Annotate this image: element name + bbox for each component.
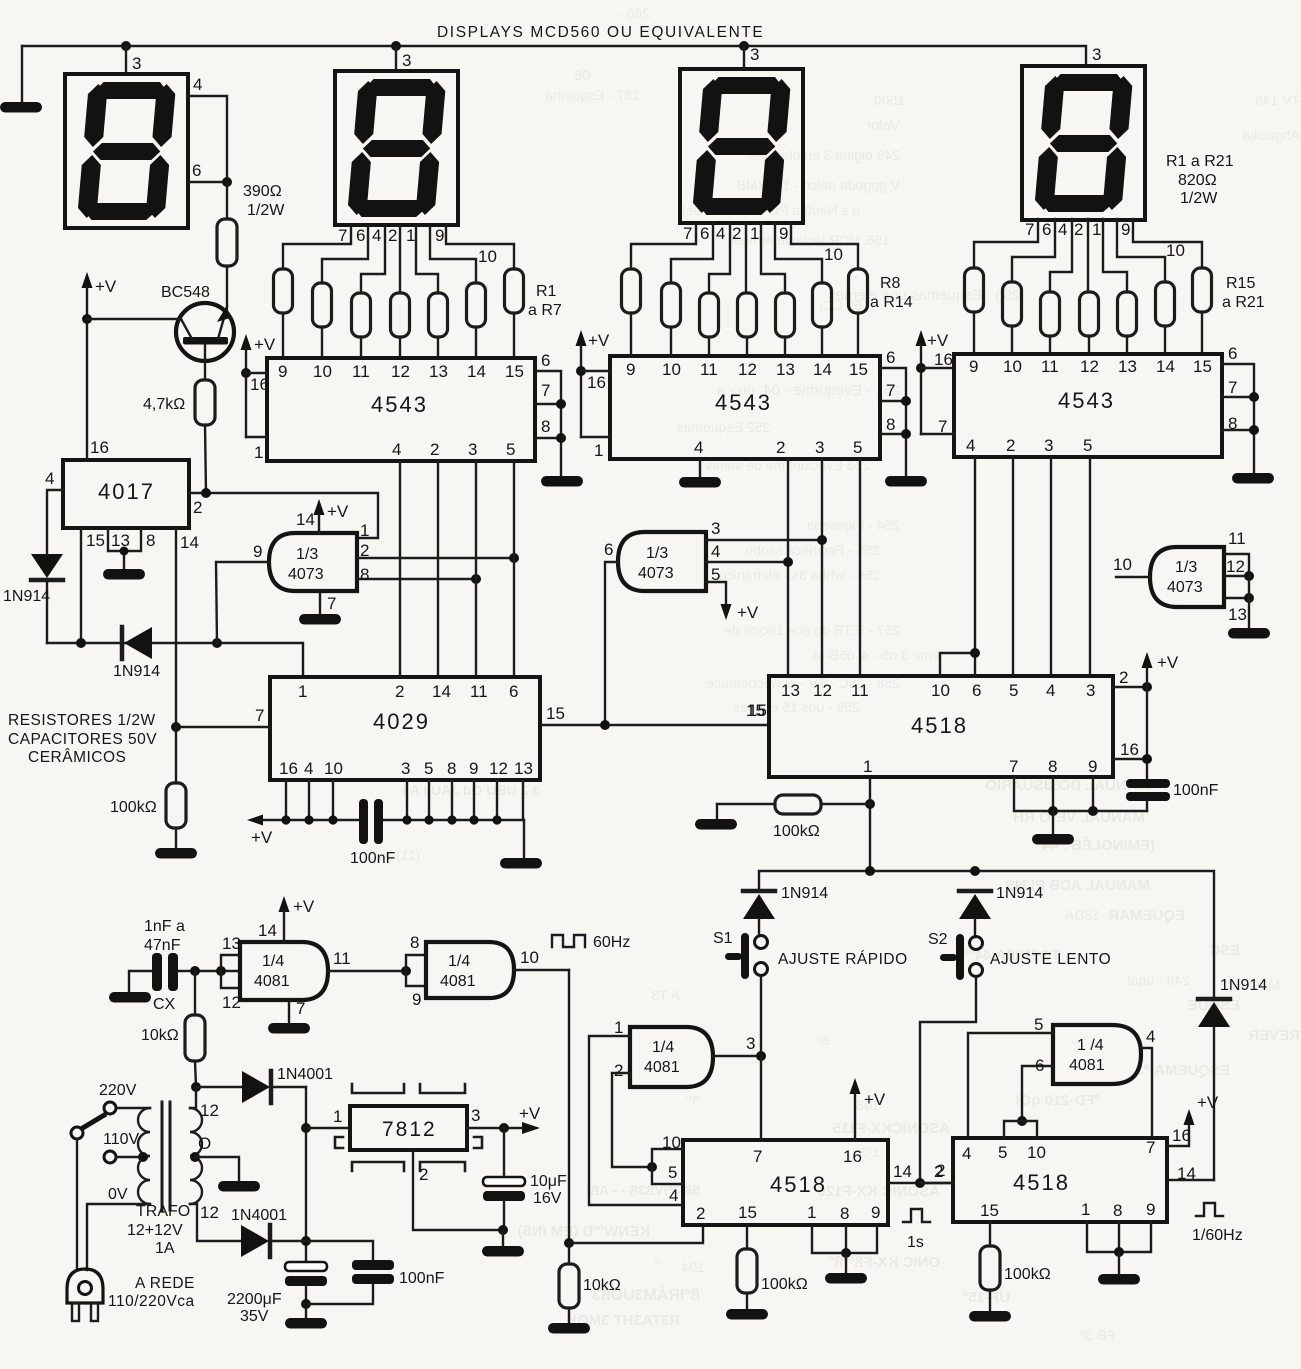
svg-text:CAPACITORES 50V: CAPACITORES 50V — [8, 731, 157, 748]
svg-text:4: 4 — [966, 436, 975, 455]
svg-text:820Ω: 820Ω — [1178, 172, 1217, 189]
wire 4081a input bracket pins13-12 — [221, 934, 241, 1012]
wire 4073a pin7 ground — [320, 591, 336, 613]
wire resistor to 4543 pin — [1201, 312, 1203, 354]
svg-text:4073: 4073 — [288, 566, 324, 583]
svg-text:10kΩ: 10kΩ — [141, 1027, 179, 1044]
wire 4029 pin12 to rail — [496, 780, 498, 820]
wire resistor to 4543 pin — [321, 327, 323, 358]
svg-text:3: 3 — [711, 519, 720, 538]
node dot secondary top — [191, 1082, 201, 1092]
svg-text:13: 13 — [1118, 357, 1137, 376]
wire display pin 10 to resistor — [791, 223, 858, 269]
IC 4518 first — [769, 676, 1113, 777]
svg-text:11: 11 — [1228, 529, 1246, 548]
svg-text:5: 5 — [1083, 436, 1092, 455]
svg-text:7: 7 — [938, 417, 947, 436]
svg-text:a R7: a R7 — [528, 302, 562, 319]
resistor (820 ohm set) col2 — [662, 283, 681, 327]
wire resistor to 4543 pin — [1088, 336, 1090, 354]
svg-text:6: 6 — [541, 351, 550, 370]
svg-text:10: 10 — [1113, 555, 1132, 574]
svg-text:CERÂMICOS: CERÂMICOS — [28, 749, 126, 766]
svg-text:1N4001: 1N4001 — [231, 1207, 287, 1224]
svg-text:10: 10 — [1027, 1143, 1046, 1162]
svg-text:7: 7 — [1009, 757, 1018, 776]
svg-text:6: 6 — [886, 348, 895, 367]
wire display pin 2 to resistor — [1087, 219, 1089, 292]
svg-text:3: 3 — [401, 759, 410, 778]
svg-text:4: 4 — [1058, 220, 1067, 239]
svg-text:220V: 220V — [99, 1082, 137, 1099]
svg-text:10: 10 — [1166, 241, 1185, 260]
wire 4029 pin5 to rail — [428, 780, 430, 820]
resistor (820 ohm set) col4 — [391, 293, 410, 337]
svg-text:1/4: 1/4 — [262, 953, 284, 970]
diode D2 1N914 horizontal — [113, 627, 160, 680]
svg-text:A REDE: A REDE — [135, 1275, 195, 1292]
bus 4543-1 pin3 to 4029 pin11 — [475, 461, 477, 677]
diode D5 1N914 right — [1198, 977, 1267, 1180]
svg-text:13: 13 — [1228, 605, 1247, 624]
IC 4029 — [270, 677, 540, 780]
svg-text:1: 1 — [360, 521, 369, 540]
svg-text:V gpgoda aelco - 150XMB: V gpgoda aelco - 150XMB — [737, 177, 900, 193]
wire 4081d output pin4 — [1141, 1027, 1155, 1138]
wire 4081d pin6 — [1017, 1056, 1053, 1126]
svg-text:13: 13 — [776, 360, 795, 379]
svg-text:4073: 4073 — [1167, 579, 1203, 596]
resistor (820 ohm set) col4 — [738, 293, 757, 337]
svg-text:15: 15 — [86, 531, 105, 550]
wire display pin 4 to resistor — [361, 225, 385, 293]
svg-text:9: 9 — [469, 759, 478, 778]
svg-text:9: 9 — [253, 542, 262, 561]
svg-text:13: 13 — [514, 759, 533, 778]
svg-text:2: 2 — [1074, 220, 1083, 239]
svg-text:15: 15 — [748, 701, 767, 720]
svg-text:4: 4 — [694, 438, 703, 457]
gate U-4081b 1/4 4081 — [426, 942, 514, 998]
wire 4073a output pin9 — [216, 542, 269, 643]
svg-text:2: 2 — [776, 438, 785, 457]
wire display pin 9 to resistor — [1117, 219, 1165, 282]
wire secondary bottom lead — [190, 1203, 241, 1241]
svg-text:1: 1 — [614, 1018, 623, 1037]
resistor (820 ohm set) col1 — [274, 269, 293, 313]
terminal 110V — [103, 1131, 148, 1163]
svg-text:100kΩ: 100kΩ — [110, 799, 157, 816]
wire 4543-2 pin4 to ground — [699, 459, 701, 476]
wire 4073c pin12 — [1224, 557, 1254, 581]
svg-text:+V: +V — [254, 335, 276, 354]
gate U-4081c 1/4 4081 — [630, 1027, 713, 1087]
svg-text:R8: R8 — [880, 275, 901, 292]
wire 4081a pin7 ground — [289, 999, 305, 1022]
wire to 7812 pin1 — [306, 1127, 350, 1129]
svg-text:8: 8 — [410, 933, 419, 952]
wire secondary-top node to diode — [196, 1086, 242, 1088]
wire resistor to 4543 pin — [475, 327, 477, 358]
svg-text:6: 6 — [972, 681, 981, 700]
svg-text:100nF: 100nF — [350, 850, 396, 867]
wire 4518-2 pin15 to 100k — [737, 1225, 808, 1308]
+V arrow 4518-2 pin16 — [850, 1078, 886, 1140]
wire top +segment-common rail — [22, 46, 1086, 66]
svg-text:3: 3 — [746, 1034, 755, 1053]
svg-text:8: 8 — [886, 415, 895, 434]
wire CX to 10k — [194, 971, 196, 1015]
wire 4518-1 ground row — [1014, 777, 1147, 833]
svg-text:1: 1 — [298, 682, 307, 701]
svg-text:12: 12 — [738, 360, 757, 379]
svg-text:6: 6 — [1228, 344, 1237, 363]
resistor (820 ohm set) col3 — [352, 293, 371, 337]
ground 4543-2 pins678 — [885, 476, 927, 487]
svg-text:12: 12 — [391, 362, 410, 381]
svg-text:1nF a: 1nF a — [144, 918, 185, 935]
wire 4073c output pin10 stub — [1113, 555, 1150, 577]
diode D6 1N4001 — [242, 1066, 333, 1103]
node dot gate input bracket — [216, 966, 226, 976]
svg-text:1º3: 1º3 — [859, 1144, 880, 1160]
wire 4029 pin7 to 100k — [175, 727, 177, 783]
svg-text:4: 4 — [1146, 1027, 1155, 1046]
ground 100k ajuste — [695, 819, 737, 830]
svg-text:1: 1 — [406, 226, 415, 245]
+V arrow 4081a pin14 — [258, 896, 315, 942]
svg-text:1/4: 1/4 — [448, 953, 470, 970]
svg-text:7: 7 — [683, 224, 692, 243]
svg-text:9: 9 — [412, 990, 421, 1009]
svg-text:4543: 4543 — [715, 390, 772, 415]
svg-text:8: 8 — [840, 1204, 849, 1223]
capacitor 100nF mid — [350, 799, 396, 867]
svg-text:R1: R1 — [536, 283, 557, 300]
resistor (820 ohm set) col2 — [1003, 282, 1022, 326]
svg-text:S2: S2 — [928, 931, 948, 948]
svg-text:9: 9 — [278, 362, 287, 381]
svg-text:R15: R15 — [1226, 275, 1255, 292]
svg-text:9: 9 — [1121, 220, 1130, 239]
wire 4017 pin15 — [81, 528, 105, 643]
wire resistor to 4543 pin — [630, 313, 632, 356]
node dot rect rail low — [301, 1236, 311, 1246]
svg-text:R1 a R21: R1 a R21 — [1166, 153, 1234, 170]
svg-text:6: 6 — [192, 161, 201, 180]
svg-text:12: 12 — [200, 1101, 219, 1120]
svg-text:18DA: 18DA — [1064, 907, 1100, 923]
symbol 60Hz squarewave — [552, 934, 630, 951]
svg-text:ºrº: ºrº — [686, 1092, 700, 1107]
svg-text:35V: 35V — [240, 1308, 269, 1325]
wire display pin 4 to resistor — [709, 223, 730, 293]
svg-text:1500: 1500 — [874, 92, 905, 108]
label TRAFO — [127, 1203, 190, 1257]
node dot 60Hz/10k/pin2 — [564, 1238, 574, 1248]
wire 4081b output pin10 / 60Hz — [514, 948, 569, 1243]
wire 4518-2 pin14 — [888, 1162, 953, 1188]
svg-text:1A: 1A — [155, 1240, 175, 1257]
svg-text:10: 10 — [520, 948, 539, 967]
svg-text:+V: +V — [293, 897, 315, 916]
svg-text:11: 11 — [1041, 357, 1059, 376]
svg-text:4081: 4081 — [440, 973, 476, 990]
svg-text:15: 15 — [980, 1201, 999, 1220]
node dot D1 pin3 — [121, 41, 131, 51]
svg-text:4: 4 — [193, 75, 202, 94]
wire switch to plug — [76, 1139, 78, 1270]
svg-text:1N914: 1N914 — [113, 663, 160, 680]
bus 4543-1 pin4 to 4029 pin2 — [399, 461, 401, 677]
ground 10k bottom — [548, 1323, 590, 1334]
svg-text:9: 9 — [1146, 1200, 1155, 1219]
svg-text:7: 7 — [753, 1147, 762, 1166]
wire 4073c pin13 — [1224, 576, 1254, 627]
transformer primary winding — [138, 1108, 150, 1204]
svg-text:100nF: 100nF — [1173, 782, 1219, 799]
wires 4518-2 pins 1,8,9 ground — [812, 1225, 877, 1272]
wire left drop to ground — [21, 46, 23, 101]
terminal 220V — [99, 1082, 150, 1114]
wire secondary centre tap — [190, 1134, 239, 1180]
resistor (820 ohm set) col6 — [467, 283, 486, 327]
wire resistor to 4543 pin — [784, 337, 786, 356]
svg-text:7: 7 — [886, 381, 895, 400]
ground 4029 rail — [500, 858, 542, 869]
wires 4017 pins13,8 tied to ground — [108, 528, 155, 568]
svg-text:Valor: Valor — [866, 117, 900, 134]
wire 4518-1 pin10 bracket — [940, 648, 980, 676]
wire 4081b input bracket pins8-9 — [406, 933, 426, 1009]
svg-text:14: 14 — [1156, 357, 1175, 376]
wire display pin 7 to resistor — [974, 219, 1038, 268]
wire secondary top lead — [190, 1087, 219, 1120]
svg-text:2: 2 — [395, 682, 404, 701]
svg-text:15: 15 — [1193, 357, 1212, 376]
svg-text:9: 9 — [1088, 757, 1097, 776]
resistor (820 ohm set) col1 — [622, 269, 641, 313]
resistor (820 ohm set) col6 — [813, 283, 832, 327]
svg-text:14: 14 — [467, 362, 486, 381]
svg-text:254 - Fiqeseba: 254 - Fiqeseba — [806, 517, 900, 533]
wire 4029 pin8 to rail — [451, 780, 453, 820]
svg-text:6: 6 — [509, 682, 518, 701]
svg-text:16: 16 — [587, 373, 606, 392]
resistor 100k left — [110, 783, 186, 847]
switch mains lever — [71, 1114, 106, 1139]
svg-text:10: 10 — [824, 245, 843, 264]
wire display pin 2 to resistor — [399, 225, 401, 293]
bus 4543-3 pin3 to 4518-1 pin4 — [1050, 457, 1052, 676]
ground 4543-1 — [541, 476, 583, 487]
svg-text:14: 14 — [1177, 1164, 1196, 1183]
svg-text:4: 4 — [392, 440, 401, 459]
svg-text:10: 10 — [662, 360, 681, 379]
node dot 7812 in — [301, 1123, 311, 1133]
ground 10uF — [482, 1246, 524, 1257]
wire display1 pin4 — [188, 96, 227, 182]
svg-text:9: 9 — [779, 224, 788, 243]
wire 4029 pin13 to rail — [522, 780, 524, 820]
wire 4029 +V rail bottom — [247, 815, 524, 859]
svg-text:1N914: 1N914 — [996, 885, 1043, 902]
wire 4029 pin16 to rail — [285, 780, 287, 820]
wire display pin 4 to resistor — [1050, 219, 1072, 292]
wire 4081c pin1 — [589, 1018, 683, 1205]
wire 4073b pin3 to bus822 — [706, 519, 827, 545]
diode D4 1N914 (S2) — [959, 885, 1043, 937]
node dot D3 pin3 — [739, 41, 749, 51]
svg-text:1: 1 — [333, 1107, 342, 1126]
svg-text:11: 11 — [700, 360, 718, 379]
+V arrow 4543-3 pin16 — [916, 330, 955, 436]
svg-text:4: 4 — [304, 759, 313, 778]
wire riser display2 pin3 — [395, 46, 397, 71]
wire 4518-3 pin15 to 100k — [980, 1222, 1051, 1310]
svg-text:14: 14 — [813, 360, 832, 379]
svg-text:4: 4 — [716, 224, 725, 243]
svg-text:TV 145: TV 145 — [1255, 92, 1300, 108]
wire 0V tap — [87, 1186, 150, 1270]
svg-text:14: 14 — [893, 1162, 912, 1181]
wire display pin 7 to resistor — [631, 223, 696, 269]
svg-text:1/3: 1/3 — [1175, 559, 1197, 576]
wire display pin 6 to resistor — [322, 225, 368, 283]
svg-text:2: 2 — [430, 440, 439, 459]
svg-text:110V: 110V — [103, 1131, 140, 1148]
svg-text:9: 9 — [969, 357, 978, 376]
wire resistor to 4543 pin — [282, 313, 284, 358]
svg-text:1: 1 — [863, 757, 872, 776]
svg-text:9: 9 — [435, 226, 444, 245]
resistor (820 ohm set) col5 — [429, 293, 448, 337]
ground 4073a — [299, 614, 341, 625]
ground 100k right — [969, 1311, 1011, 1322]
svg-text:10: 10 — [313, 362, 332, 381]
node dot pin1/100k — [865, 799, 875, 809]
svg-text:REVER: REVER — [1248, 1027, 1300, 1044]
gate U-4073b 1/3 4073 — [618, 532, 706, 591]
svg-text:6: 6 — [1035, 1056, 1044, 1075]
resistor (820 ohm set) col7 — [849, 269, 868, 313]
wire 4518-3 pins5-10 bracket — [1004, 1121, 1037, 1138]
diode D7 1N4001 — [231, 1207, 306, 1257]
svg-text:110/220Vca: 110/220Vca — [108, 1293, 195, 1310]
wire 4073a pin2 to bus — [357, 541, 519, 563]
wire display pin 1 to resistor — [761, 223, 785, 293]
wire resistor to 4543 pin — [1049, 336, 1051, 354]
svg-text:16: 16 — [90, 438, 109, 457]
svg-text:2: 2 — [614, 1061, 623, 1080]
wire ajuste rail — [759, 866, 1214, 1000]
svg-text:EQUEMAR: EQUEMAR — [1108, 907, 1185, 924]
svg-text:a R14: a R14 — [870, 294, 913, 311]
svg-text:3: 3 — [468, 440, 477, 459]
wires 4543-2 pins 6,7,8 tied — [880, 348, 911, 475]
IC 4518 second — [683, 1140, 888, 1225]
svg-text:15: 15 — [849, 360, 868, 379]
svg-text:1N914: 1N914 — [3, 588, 50, 605]
svg-text:12: 12 — [1080, 357, 1099, 376]
wire riser display3 pin3 — [743, 46, 745, 69]
wire 4518-2 pins10-5 bracket — [652, 1149, 683, 1184]
svg-text:16: 16 — [1120, 740, 1139, 759]
wires 4543-3 pins 6,7,8 tied — [1222, 344, 1259, 472]
wire resistor to 4543 pin — [821, 327, 823, 356]
svg-text:12: 12 — [813, 681, 832, 700]
svg-text:4,7kΩ: 4,7kΩ — [143, 396, 185, 413]
svg-text:4: 4 — [711, 542, 720, 561]
bus 4543-2 pin2 to 4518-1 pin13 — [787, 459, 789, 676]
wires 4543-1 pins 6,7,8 tied — [535, 351, 566, 475]
svg-text:7: 7 — [541, 381, 550, 400]
wire 390ohm to transistor emitter — [226, 266, 228, 306]
wire display pin 9 to resistor — [430, 225, 476, 283]
svg-text:4073: 4073 — [638, 565, 674, 582]
svg-text:5: 5 — [1034, 1015, 1043, 1034]
wire rect rail vertical — [305, 1087, 307, 1262]
svg-text:1 /4: 1 /4 — [1077, 1037, 1104, 1054]
svg-text:14: 14 — [296, 510, 315, 529]
wire 4017 pin4 — [45, 469, 63, 554]
svg-text:15: 15 — [738, 1203, 757, 1222]
wire resistor to 4543 pin — [1011, 326, 1013, 354]
wire 4029 pin9 to rail — [473, 780, 475, 820]
wire 4029 pin4 to rail — [308, 780, 310, 820]
svg-text:6: 6 — [700, 224, 709, 243]
svg-text:1: 1 — [594, 441, 603, 460]
capacitor 100nF psu — [306, 1241, 445, 1304]
wire D5 to 4518-3 pin14 — [1167, 1179, 1214, 1181]
svg-text:5: 5 — [711, 565, 720, 584]
svg-text:ESQUEMA-º3: ESQUEMA-º3 — [1135, 1062, 1230, 1079]
ground 100k left — [155, 848, 197, 859]
svg-text:7: 7 — [1228, 378, 1237, 397]
svg-text:12: 12 — [1226, 557, 1245, 576]
resistor (820 ohm set) col5 — [1118, 292, 1137, 336]
wire resistor to 4543 pin — [360, 337, 362, 358]
svg-text:5: 5 — [1009, 681, 1018, 700]
resistor (820 ohm set) col2 — [313, 283, 332, 327]
svg-text:A T3: A T3 — [651, 987, 680, 1003]
wire display pin 1 to resistor — [1103, 219, 1127, 292]
svg-text:MANUAL DO USUÁRIO: MANUAL DO USUÁRIO — [985, 777, 1150, 794]
resistor 4.7k — [143, 380, 215, 493]
svg-text:8: 8 — [1048, 757, 1057, 776]
capacitor CX 1nF-47nF — [129, 918, 240, 1013]
resistor (820 ohm set) col1 — [965, 268, 984, 312]
svg-text:256 - whba 3s - eletranico: 256 - whba 3s - eletranico — [719, 567, 880, 583]
ground centre tap — [218, 1181, 260, 1192]
svg-text:3: 3 — [750, 45, 759, 64]
svg-text:1s: 1s — [907, 1234, 924, 1251]
svg-text:161 CCi: 161 CCi — [819, 297, 870, 313]
svg-text:1/2W: 1/2W — [247, 202, 285, 219]
resistor 100k ajuste — [717, 795, 870, 840]
resistor (820 ohm set) col5 — [776, 293, 795, 337]
svg-text:+V: +V — [519, 1104, 541, 1123]
svg-text:8: 8 — [146, 531, 155, 550]
heatsink tab marks 7812 — [335, 1084, 482, 1171]
ground top-left — [0, 102, 42, 113]
wire S1 to gate3 output node — [760, 976, 762, 1055]
svg-text:1: 1 — [1081, 1200, 1090, 1219]
svg-text:8: 8 — [1228, 414, 1237, 433]
svg-text:1N914: 1N914 — [1220, 977, 1267, 994]
svg-text:257 - lETB dg ece 1ecjce de: 257 - lETB dg ece 1ecjce de — [724, 622, 900, 638]
wire 4029 pin3 to rail — [406, 780, 408, 820]
